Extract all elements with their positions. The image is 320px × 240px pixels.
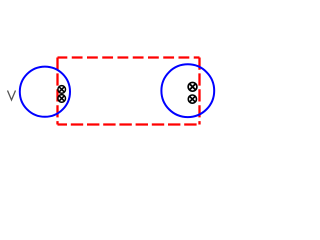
red dashed rectangle: bottom edge (58, 123, 200, 125)
red dashed rectangle: top edge (58, 56, 200, 58)
far-left small label (8, 91, 16, 101)
svg-text:⊗: ⊗ (187, 93, 199, 108)
right blue circle (161, 64, 214, 117)
left blue circle (20, 67, 70, 117)
red dashed rectangle: right edge (198, 58, 200, 125)
red dashed rectangle: left edge (56, 58, 58, 125)
left inner label (two stacked glyphs) (56, 81, 67, 105)
right inner label (two stacked glyphs) (186, 80, 199, 108)
svg-text:⊗: ⊗ (56, 91, 67, 106)
